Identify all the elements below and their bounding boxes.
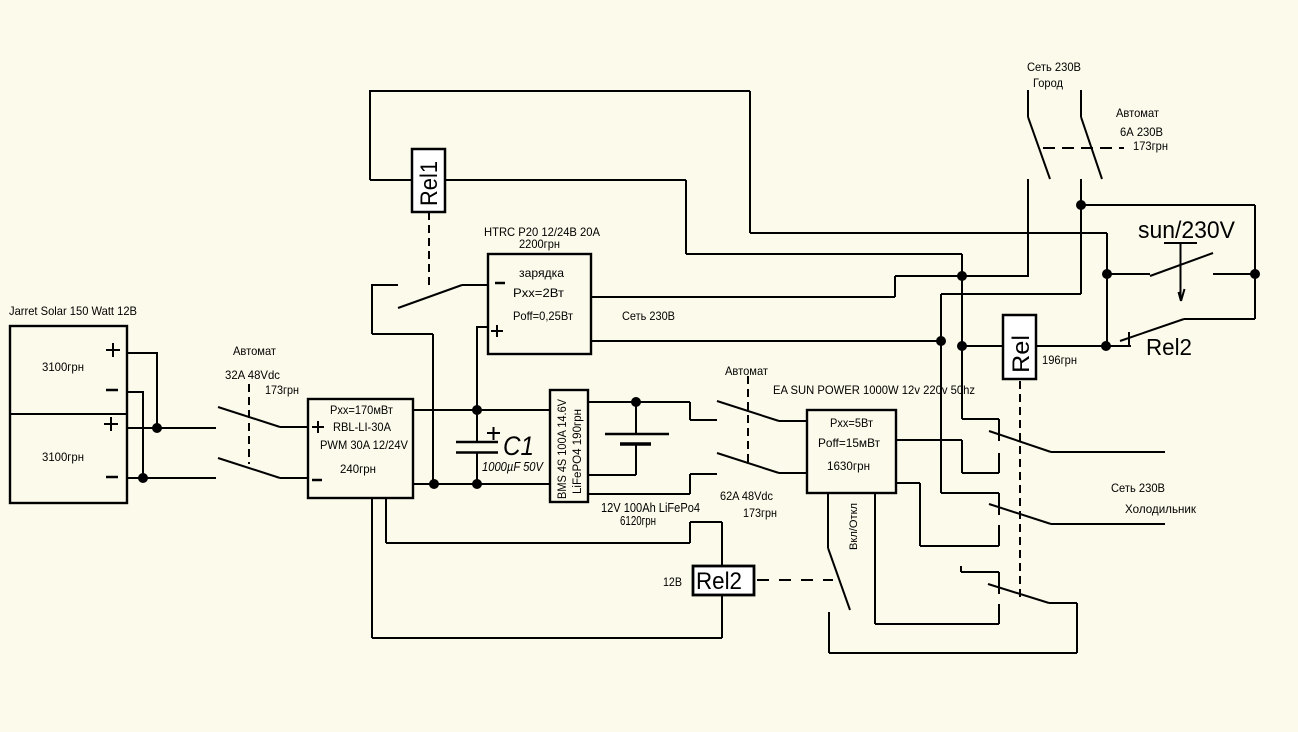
- breaker SW2 tie bar dashed: [747, 376, 749, 462]
- solar panel PV1 cell divider: [10, 413, 127, 415]
- wire selector left terminal: [1107, 273, 1150, 275]
- capacitor C1 value 1000µF 50V: [482, 460, 544, 474]
- battery BT1 top lead: [635, 402, 637, 433]
- wire PWM bottom pin2 down: [385, 498, 387, 543]
- solar panel cell2 minus pin: [106, 476, 118, 479]
- switch Вкл/Откл bottom terminal: [828, 612, 830, 653]
- inverter power pin A lead: [827, 493, 829, 548]
- breaker SW2 label Автомат: [725, 364, 768, 378]
- U1 text PWM 30A 12/24V: [320, 438, 408, 452]
- svg-text:1000µF 50V: 1000µF 50V: [482, 460, 544, 474]
- wire top loop down to selector: [1106, 233, 1108, 346]
- contact K3 top stub: [961, 566, 999, 572]
- solar panel PV1 label Jarret Solar 150 Watt 12B: [9, 304, 137, 318]
- battery BT1 bottom lead: [635, 444, 637, 475]
- relay Rel2 text: [696, 568, 742, 595]
- svg-text:Pxx=2Вт: Pxx=2Вт: [513, 286, 565, 300]
- svg-text:173грн: 173грн: [1133, 139, 1168, 153]
- capacitor C1 top plate: [456, 441, 498, 444]
- svg-text:Вкл/Откл: Вкл/Откл: [848, 503, 860, 550]
- wire SW1 pole2 to PWM-: [280, 477, 308, 479]
- breaker SW3 tie bar dashed: [1043, 147, 1124, 149]
- svg-text:RBL-LI-30A: RBL-LI-30A: [333, 420, 391, 434]
- wire inverter out2: [896, 483, 999, 546]
- svg-text:173грн: 173грн: [265, 383, 299, 397]
- junction selector left: [1102, 269, 1112, 279]
- U2 text зарядка: [519, 266, 564, 280]
- svg-text:2200грн: 2200грн: [519, 237, 560, 251]
- contact Rel2 blade: [1120, 319, 1184, 341]
- junction neutral at x962: [957, 271, 967, 281]
- wire HTRC ac out2: [591, 340, 941, 342]
- svg-text:Сеть 230В: Сеть 230В: [622, 309, 675, 323]
- relay Rel1 text: [416, 161, 443, 206]
- junction solar plus: [152, 423, 162, 433]
- wire K1 output to load: [1051, 451, 1165, 453]
- svg-text:BMS 4S 100A 14.6V: BMS 4S 100A 14.6V: [557, 399, 569, 499]
- wire SW1 pole1 to PWM+: [280, 426, 308, 428]
- capacitor C1 plus mark: [487, 427, 500, 440]
- svg-text:12V 100Ah LiFePo4: 12V 100Ah LiFePo4: [601, 501, 700, 515]
- contact Rel2 label: [1146, 334, 1192, 360]
- breaker SW3 pole2 bottom lead: [1080, 179, 1082, 294]
- junction solar minus: [138, 473, 148, 483]
- breaker SW2 rating 62A 48Vdc: [720, 489, 773, 503]
- U1 plus pin: [312, 421, 324, 433]
- svg-text:Pxx=170мВт: Pxx=170мВт: [330, 403, 393, 417]
- wire cell1- to minus bus: [127, 391, 143, 478]
- breaker SW1 rating 32A 48Vdc: [225, 368, 280, 382]
- wire pin B to contact K3: [875, 623, 999, 625]
- BMS U3 text line1: [557, 399, 569, 499]
- wire Rel1 net vertical x962: [961, 254, 963, 419]
- wire cell1+ to plus bus: [127, 352, 157, 428]
- wire PWM bottom pin1 down: [371, 498, 373, 638]
- wire Rel1 net vertical x686: [685, 180, 687, 254]
- wire solar plus bus: [127, 427, 216, 429]
- junction Rel coil tap: [957, 341, 967, 351]
- svg-text:Poff=0,25Вт: Poff=0,25Вт: [513, 309, 573, 323]
- battery BT1 long plate: [605, 433, 669, 435]
- junction city phase: [1076, 200, 1086, 210]
- junction Rel right: [1101, 341, 1111, 351]
- selector T bar: [1164, 242, 1197, 244]
- U4 text Poff=15мВт: [818, 436, 880, 450]
- svg-text:Город: Город: [1033, 76, 1063, 90]
- label Сеть 230В at HTRC: [622, 309, 675, 323]
- U2 text Poff=0,25Вт: [513, 309, 573, 323]
- svg-text:PWM 30A 12/24V: PWM 30A 12/24V: [320, 438, 408, 452]
- svg-text:Poff=15мВт: Poff=15мВт: [818, 436, 880, 450]
- breaker SW3 pole1 blade: [1028, 117, 1050, 179]
- grid label Сеть 230В: [1027, 60, 1081, 74]
- junction minus bus at HTRC feed: [429, 479, 439, 489]
- relay Rel text: [1008, 335, 1035, 373]
- junction selector right: [1250, 269, 1260, 279]
- U2 plus pin: [491, 325, 503, 337]
- U2 text Pxx=2Вт: [513, 286, 565, 300]
- Rel1 contact fixed terminal wire: [372, 284, 398, 286]
- svg-text:sun/230V: sun/230V: [1138, 217, 1235, 244]
- switch Вкл/Откл blade: [828, 548, 850, 610]
- contact K3 blade: [988, 584, 1049, 603]
- U4 text Pxx=5Вт: [830, 416, 873, 430]
- wire BMS top right to breaker: [588, 402, 717, 420]
- contact K2 top tick: [998, 493, 1000, 515]
- svg-text:Сеть 230В: Сеть 230В: [1027, 60, 1081, 74]
- svg-text:6А 230В: 6А 230В: [1120, 125, 1163, 139]
- relay Rel1 control link dashed: [428, 212, 430, 288]
- wire solar minus bus: [127, 477, 216, 479]
- relay Rel price 196грн: [1042, 353, 1077, 367]
- Rel1 contact blade: [398, 285, 462, 308]
- breaker SW2 pole1 blade: [717, 401, 779, 421]
- relay Rel2 box: [693, 566, 754, 595]
- switch Вкл/Откл label: [848, 503, 860, 550]
- contact K2 bottom terminal tick: [998, 525, 1000, 546]
- wire to Rel1 coil left: [370, 179, 412, 181]
- battery label 12V 100Ah LiFePo4: [601, 501, 700, 515]
- grid label Город: [1033, 76, 1063, 90]
- U1 text Pxx=170мВт: [330, 403, 393, 417]
- U4 text 1630грн: [827, 459, 870, 473]
- svg-text:зарядка: зарядка: [519, 266, 564, 280]
- load label Холодильник: [1125, 502, 1197, 516]
- battery price 6120грн: [620, 514, 656, 528]
- svg-text:LiFePO4 190грн: LiFePO4 190грн: [572, 409, 584, 494]
- charger U2 price 2200грн: [519, 237, 560, 251]
- wire city phase down to K2: [941, 294, 1081, 493]
- solar panel cell1 plus pin: [106, 343, 120, 357]
- wire HTRC minus feed down: [372, 284, 433, 484]
- wire top loop horizontal: [369, 90, 750, 92]
- svg-text:3100грн: 3100грн: [42, 450, 84, 464]
- contact K1 bottom terminal tick: [998, 453, 1000, 473]
- svg-text:Rel: Rel: [1008, 335, 1035, 373]
- contact K3 top tick: [998, 572, 1000, 594]
- U1 text 240грн: [340, 462, 376, 476]
- svg-text:Pxx=5Вт: Pxx=5Вт: [830, 416, 873, 430]
- contact Rel2 tick: [1128, 332, 1130, 346]
- wire Rel1 coil right: [445, 179, 686, 181]
- svg-text:6120грн: 6120грн: [620, 514, 656, 528]
- breaker SW1 pole1 blade: [218, 407, 280, 427]
- breaker SW1 pole2 blade: [218, 458, 280, 478]
- svg-text:Автомат: Автомат: [725, 364, 768, 378]
- selector blade: [1150, 253, 1213, 276]
- breaker SW3 pole1 bottom lead: [1027, 179, 1029, 277]
- svg-text:C1: C1: [503, 431, 534, 461]
- contact K1 blade: [989, 431, 1051, 452]
- svg-text:Rel1: Rel1: [416, 161, 443, 206]
- breaker SW1 price 173грн: [265, 383, 299, 397]
- svg-text:240грн: 240грн: [340, 462, 376, 476]
- svg-text:Автомат: Автомат: [1116, 106, 1159, 120]
- wire K2 output to load: [1051, 523, 1165, 525]
- breaker SW3 price 173грн: [1133, 139, 1168, 153]
- svg-text:196грн: 196грн: [1042, 353, 1077, 367]
- capacitor C1 name: [503, 431, 534, 461]
- charger U2 label HTRC P20 12/24В 20A: [484, 225, 600, 239]
- U1 text RBL-LI-30A: [333, 420, 391, 434]
- breaker SW2 price 173грн: [743, 506, 777, 520]
- selector stem: [1180, 243, 1182, 299]
- junction battery plus: [631, 397, 641, 407]
- breaker SW1 tie bar dashed: [248, 384, 250, 464]
- junction HTRC out2 tap: [936, 336, 946, 346]
- selector label sun/230V: [1138, 217, 1235, 244]
- wire HTRC ac out1: [591, 276, 1028, 297]
- contact K3 bottom terminal tick: [998, 604, 1000, 624]
- inverter U4 box: [807, 410, 896, 493]
- svg-text:Сеть 230В: Сеть 230В: [1111, 481, 1165, 495]
- wire selector right terminal: [1213, 273, 1255, 275]
- U1 minus pin: [312, 479, 322, 482]
- load label Сеть 230В: [1111, 481, 1165, 495]
- wire HTRC plus pin to plus bus: [477, 326, 488, 410]
- junction plus bus at C1: [472, 405, 482, 415]
- wire blade to HTRC minus pin: [462, 284, 488, 286]
- breaker SW3 pole2 blade: [1081, 117, 1102, 179]
- wire inverter out1: [896, 440, 999, 473]
- wire Rel2 coil top loop: [386, 522, 722, 566]
- battery BT1 short plate: [620, 442, 651, 445]
- wire SW2 pole2 to inverter: [779, 472, 807, 474]
- solar panel cell1 value 3100грн: [42, 360, 84, 374]
- wire DC minus bus PWM to BMS: [413, 483, 550, 485]
- solar panel cell2 value 3100грн: [42, 450, 84, 464]
- wire Rel2 coil bottom loop: [372, 595, 722, 638]
- svg-text:EA SUN POWER 1000W 12v 220v 50: EA SUN POWER 1000W 12v 220v 50hz: [773, 383, 975, 397]
- relay Rel2 voltage label 12В: [663, 575, 682, 589]
- contact K1 top tick: [998, 419, 1000, 441]
- wire top loop y233 to sun node: [750, 232, 1107, 234]
- svg-text:62A 48Vdc: 62A 48Vdc: [720, 489, 773, 503]
- charger U2 box: [488, 254, 591, 354]
- breaker SW2 pole2 blade: [717, 453, 779, 473]
- svg-text:Холодильник: Холодильник: [1125, 502, 1197, 516]
- BMS U3 text line2: [572, 409, 584, 494]
- solar panel cell1 minus pin: [106, 389, 118, 392]
- solar panel cell2 plus pin: [104, 417, 118, 431]
- svg-text:Rel2: Rel2: [696, 568, 742, 595]
- relay Rel1 box: [412, 149, 445, 212]
- inverter U4 label EA SUN POWER 1000W 12v 220v 50hz: [773, 383, 975, 397]
- capacitor C1 bottom plate: [456, 451, 498, 454]
- wire Rel1 net horizontal y254: [686, 253, 962, 255]
- svg-text:1630грн: 1630грн: [827, 459, 870, 473]
- contact K1 top terminal: [962, 418, 999, 420]
- svg-text:Rel2: Rel2: [1146, 334, 1192, 360]
- wire top loop left vertical: [369, 90, 371, 180]
- breaker SW3 label Автомат: [1116, 106, 1159, 120]
- wire battery minus to BMS: [588, 474, 636, 476]
- wire Rel coil right: [1036, 345, 1131, 347]
- breaker SW3 pole1 top lead: [1027, 90, 1029, 117]
- capacitor C1 bottom lead: [476, 452, 478, 484]
- relay Rel2 control link dashed: [757, 579, 833, 581]
- wire city phase to sun switch right: [1081, 205, 1255, 274]
- relay Rel box: [1003, 315, 1036, 379]
- wire top loop right vertical x750: [749, 91, 751, 233]
- svg-text:32A 48Vdc: 32A 48Vdc: [225, 368, 280, 382]
- contact K2 top terminal: [941, 492, 999, 494]
- svg-text:Автомат: Автомат: [233, 344, 276, 358]
- breaker SW3 pole2 top lead: [1080, 90, 1082, 117]
- breaker SW3 rating 6А 230В: [1120, 125, 1163, 139]
- wire DC plus bus PWM to BMS: [413, 409, 550, 411]
- wire bypass loop: [829, 603, 1077, 653]
- capacitor C1 top lead: [476, 410, 478, 442]
- wire BMS bottom right to breaker: [588, 474, 717, 494]
- BMS U3 box: [550, 390, 588, 502]
- svg-text:Jarret Solar 150 Watt 12В: Jarret Solar 150 Watt 12В: [9, 304, 137, 318]
- inverter power pin B lead: [874, 493, 876, 624]
- svg-text:173грн: 173грн: [743, 506, 777, 520]
- wire Rel coil left: [962, 345, 1003, 347]
- breaker SW1 label Автомат: [233, 344, 276, 358]
- svg-text:12В: 12В: [663, 575, 682, 589]
- wire Rel2 contact to selector right: [1184, 274, 1255, 319]
- wire SW2 pole1 to inverter: [779, 420, 807, 422]
- contact K2 blade: [989, 504, 1051, 524]
- solar panel PV1 outline: [10, 326, 127, 503]
- selector arrow tip: [1179, 289, 1185, 301]
- U2 minus pin: [495, 282, 505, 285]
- relay Rel control link dashed: [1019, 381, 1021, 602]
- junction minus bus at C1: [472, 479, 482, 489]
- svg-text:3100грн: 3100грн: [42, 360, 84, 374]
- PWM controller U1 box: [308, 399, 413, 498]
